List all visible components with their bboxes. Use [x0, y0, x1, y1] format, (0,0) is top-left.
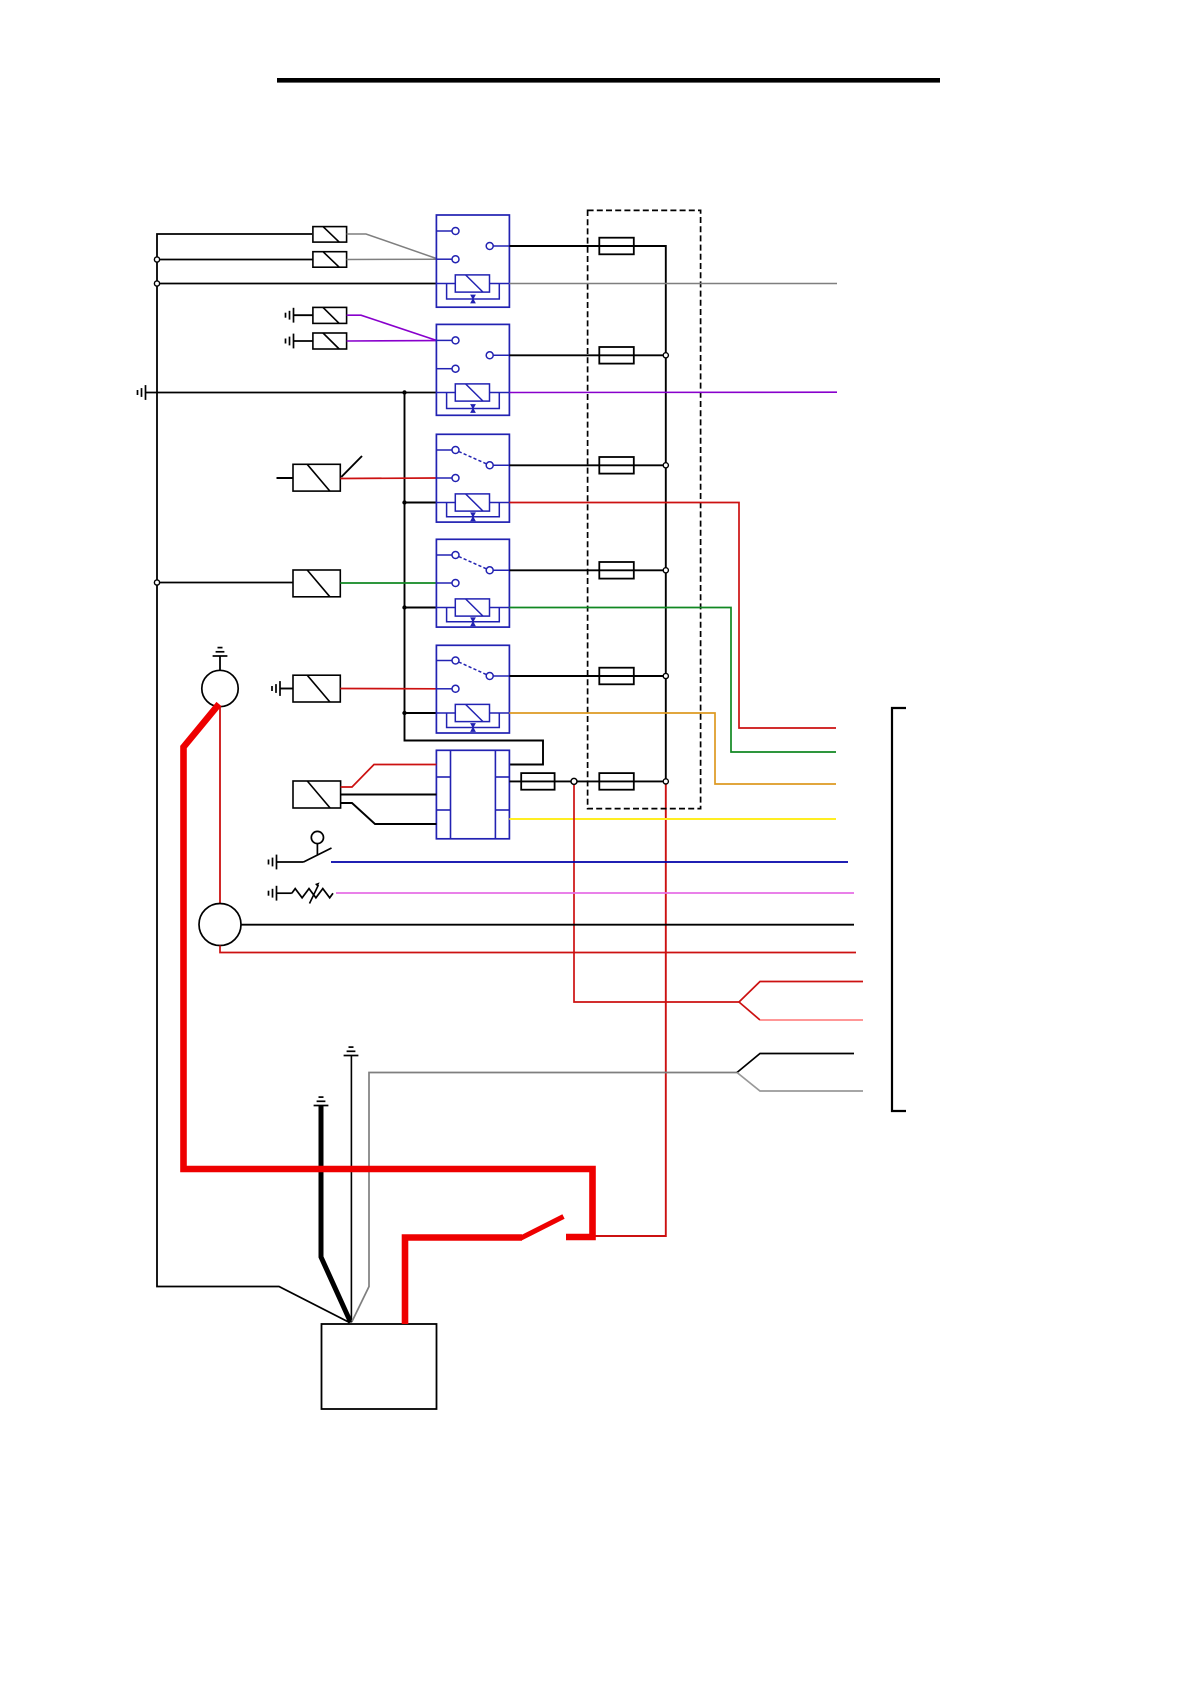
node: bus tap 2 — [154, 281, 159, 286]
lead: ground to gauge G1 — [219, 656, 221, 671]
wire: battery sense to ground — [350, 1056, 352, 1323]
gauge G2 — [199, 904, 241, 946]
cable: battery positive feed to G1 (thick red) — [184, 704, 593, 1237]
wire: F7 node drop to fork (red) — [574, 784, 739, 1002]
relay U1 — [436, 215, 509, 307]
wire: U5 coil output (orange) — [509, 713, 836, 784]
fuse F3 — [599, 457, 634, 474]
switch S1 button — [311, 831, 323, 843]
node: bus tap 1 — [154, 257, 159, 262]
gauge G1 — [202, 670, 238, 706]
connector X6 — [293, 570, 340, 597]
wire: M1 output (yellow) — [509, 818, 836, 820]
wire: feed to connector X2 — [157, 259, 313, 261]
connector X5 stub lead — [277, 477, 294, 479]
wire: coil ground bus — [405, 393, 544, 765]
wire: G2 output (red) — [220, 946, 856, 953]
wire: U5 output to fuse F5 — [509, 675, 665, 677]
wire: X7 to relay U5 (red) — [340, 688, 436, 690]
wire: U4 coil to ground bus — [405, 607, 437, 609]
wire: U5 coil to ground bus — [405, 712, 437, 714]
wire: X6 to relay U4 (green) — [340, 582, 436, 584]
cable: battery positive to switch (thick red) — [405, 1238, 522, 1325]
actuator lever on X5 — [341, 456, 362, 477]
lead: ground to X7 — [280, 688, 293, 690]
fuse box enclosure (dashed) — [588, 210, 701, 808]
wire: U1 output to fuse bus — [509, 246, 665, 781]
junction: bus/F3 — [663, 463, 668, 468]
wire: fork upper branch (red) — [739, 982, 863, 1003]
wire: battery negative to ground (thick black) — [321, 1106, 351, 1323]
junction: bus/F4 — [663, 568, 668, 573]
wire: X1 to relay U1 (gray) — [347, 234, 437, 259]
junction: bus/F2 — [663, 353, 668, 358]
wire: fork lower branch (salmon) — [760, 1019, 863, 1021]
junction: ground bus / U4 coil — [402, 605, 406, 609]
wire: U2 coil return (violet) — [509, 391, 837, 393]
fuse F1 — [599, 238, 634, 255]
title rule — [277, 78, 940, 83]
ground symbol: coil ground rail — [138, 385, 146, 400]
junction: ground bus at rail — [402, 390, 406, 394]
wire: X3 to relay U2 (violet) — [347, 315, 437, 340]
wire: U1 coil return (gray) — [509, 283, 837, 285]
junction: ground bus / U3 coil — [402, 500, 406, 504]
lead: ground to X3 — [294, 314, 313, 316]
connector X8 — [293, 781, 341, 808]
wire: ground rail to relay U2 coil — [146, 392, 437, 394]
junction: bus/F6 — [663, 779, 668, 784]
fuse F5 — [599, 668, 634, 685]
rheostat R1 wiper arrow — [310, 885, 319, 904]
wire: X8 to M1 (red) — [341, 765, 437, 788]
wire: left supply bus down to battery — [157, 234, 350, 1323]
wire: U3 coil output (red) — [509, 503, 836, 729]
fuse F6 — [599, 773, 634, 790]
wire: fork lower branch diag (red) — [739, 1002, 760, 1020]
wire: G2 output (black) — [242, 924, 855, 926]
wire: U3 coil to ground bus — [405, 502, 437, 504]
wire: X2 to relay U1 (gray) — [347, 258, 437, 260]
connector X2 — [313, 252, 347, 268]
junction: ground bus / U5 coil — [402, 711, 406, 715]
rheostat R1 lead — [277, 892, 292, 894]
relay U2 — [436, 324, 509, 415]
connector X3 — [313, 307, 347, 323]
junction: bus/F5 — [663, 673, 668, 678]
ground for X3 — [286, 308, 294, 323]
lead: ground to X4 — [294, 340, 313, 342]
wire: fuse bus to main switch (red) — [594, 781, 666, 1236]
wire: G1 to G2 (red) — [219, 707, 221, 904]
fuse F4 — [599, 562, 634, 579]
harness bracket — [892, 708, 906, 1111]
wire: battery monitor line (gray) — [352, 1073, 737, 1322]
ground for battery sense — [344, 1047, 359, 1055]
fuse F7 inline — [521, 773, 554, 790]
wire: S1 output (blue) — [331, 861, 848, 863]
ground for X4 — [286, 334, 294, 349]
wire: feed to relay U1 coil — [157, 283, 436, 285]
wire: U4 coil output (green) — [509, 608, 836, 753]
node: F7 output terminal — [571, 778, 577, 784]
wire: M1 output to fuse F6 — [509, 780, 665, 782]
connector X5 — [293, 464, 340, 491]
battery B1 — [322, 1324, 437, 1409]
switch S1 arm — [304, 848, 332, 862]
main switch blade (thick red) — [521, 1217, 564, 1239]
wire: X8 to M1 (black low) — [341, 803, 437, 824]
ground for gauge G1 — [213, 648, 228, 656]
wire: gray fork lower branch (gray) — [737, 1073, 863, 1092]
wire: X5 to relay U3 (red) — [340, 477, 436, 480]
wire: X4 to relay U2 (violet) — [347, 340, 437, 342]
wire: U3 output to fuse F3 — [509, 464, 665, 466]
fuse F2 — [599, 347, 634, 364]
relay U4 — [436, 539, 509, 627]
ground for switch S1 — [269, 855, 277, 870]
wire: U4 output to fuse F4 — [509, 569, 665, 571]
ground for battery negative (thick) — [314, 1097, 329, 1105]
wire: X8 to M1 (black mid) — [341, 794, 437, 796]
connector X7 — [293, 675, 340, 702]
wire: feed to connector X8 — [157, 582, 293, 584]
motor block M1 — [436, 750, 509, 839]
node: bus tap 3 — [154, 580, 159, 585]
relay U5 — [436, 645, 509, 733]
wire: gray fork upper branch (black) — [737, 1054, 854, 1073]
connector X4 — [313, 333, 347, 349]
ground for X7 — [272, 681, 280, 696]
wire: R1 output (pink) — [336, 892, 854, 894]
relay U3 — [436, 434, 509, 522]
switch S1 lead — [277, 861, 304, 863]
ground for rheostat R1 — [269, 886, 277, 901]
connector X1 — [313, 227, 347, 243]
switch S1 button stem — [316, 844, 318, 855]
rheostat R1 element — [292, 889, 333, 898]
wire: U2 output to fuse F2 — [509, 354, 665, 356]
